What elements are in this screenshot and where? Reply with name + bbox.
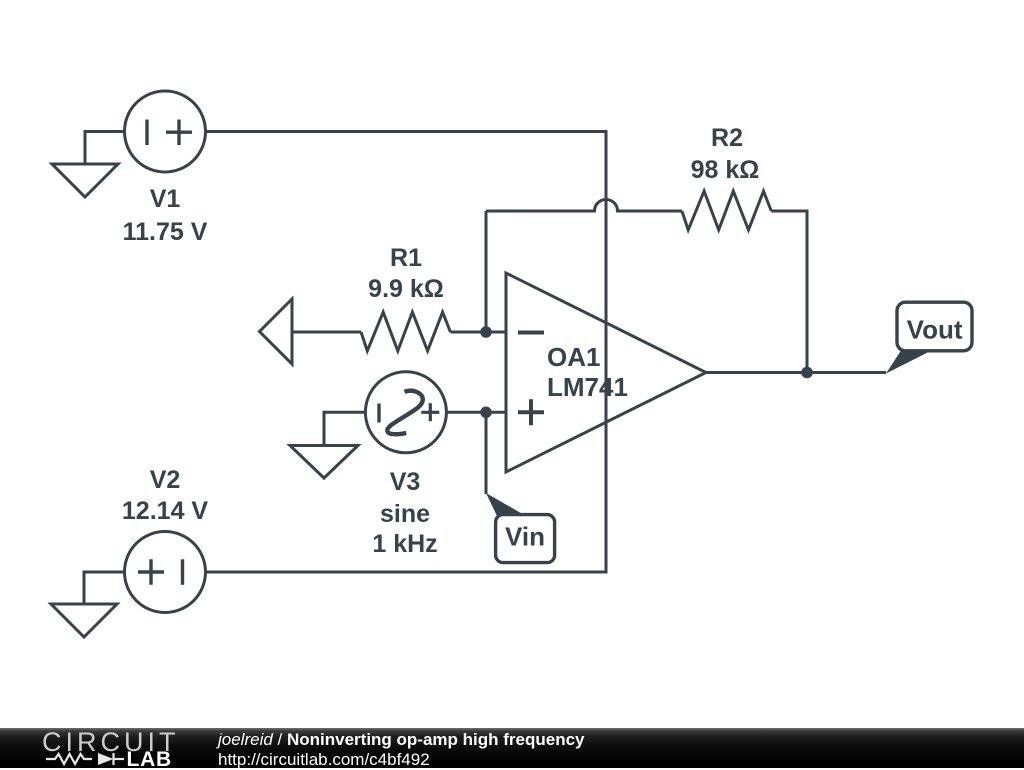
wire node to Vin flag <box>485 412 488 494</box>
wire V3 to ground <box>324 412 365 445</box>
ground for R1 <box>260 299 293 364</box>
svg-text:R2: R2 <box>711 124 743 152</box>
svg-text:LAB: LAB <box>126 748 172 768</box>
svg-text:12.14 V: 12.14 V <box>122 497 209 525</box>
wire supply rail V1 top to V2 bottom <box>206 132 607 573</box>
Vin flag pointer <box>486 493 526 516</box>
node Vin flag box <box>496 515 555 563</box>
ground for V3 <box>290 446 358 479</box>
V1 plus sign <box>166 120 192 146</box>
svg-text:V2: V2 <box>150 466 181 494</box>
wire V1 to ground <box>85 132 125 165</box>
footer title line <box>218 730 585 750</box>
svg-text:sine: sine <box>380 500 430 528</box>
wire R1 to inverting input <box>450 331 506 334</box>
CircuitLab logo <box>0 728 200 768</box>
wire R2 to output node <box>771 211 807 373</box>
voltage source V3 sine <box>365 372 446 453</box>
V2 minus bar <box>181 559 184 585</box>
resistor R1 <box>361 312 450 351</box>
svg-text:9.9 kΩ: 9.9 kΩ <box>368 275 444 303</box>
svg-text:11.75 V: 11.75 V <box>123 218 208 246</box>
V3 plus sign <box>421 403 439 421</box>
resistor R2 <box>682 191 771 230</box>
ground for V1 <box>52 164 118 197</box>
ground for V2 <box>51 604 117 637</box>
wire ground to R1 <box>292 331 361 334</box>
wire output <box>706 371 886 374</box>
svg-text:1 kHz: 1 kHz <box>372 530 437 558</box>
svg-text:OA1: OA1 <box>547 342 600 372</box>
svg-text:V3: V3 <box>390 468 421 496</box>
svg-text:V1: V1 <box>150 185 181 213</box>
node junction output <box>801 367 813 379</box>
op-amp plus input symbol <box>518 399 544 425</box>
svg-text:98 kΩ: 98 kΩ <box>691 156 760 184</box>
wire V3 to noninverting input <box>446 411 506 414</box>
V2 plus sign <box>138 559 164 585</box>
footer url line <box>218 750 430 770</box>
V3 minus bar <box>377 404 380 423</box>
svg-text:R1: R1 <box>390 244 422 272</box>
voltage source V1 <box>125 91 206 172</box>
V1 minus bar <box>145 120 148 146</box>
op-amp minus input symbol <box>518 331 544 335</box>
op-amp OA1 <box>506 273 706 472</box>
wire V2 to ground <box>84 572 125 604</box>
svg-text:LM741: LM741 <box>547 372 628 402</box>
node junction noninverting input <box>480 407 492 419</box>
voltage source V2 <box>125 532 206 613</box>
wire feedback horizontal with hop over rail <box>486 200 682 212</box>
V3 sine symbol <box>387 391 423 435</box>
svg-text:Vin: Vin <box>505 522 545 552</box>
svg-text:Vout: Vout <box>907 314 963 344</box>
footer bar <box>0 728 1024 768</box>
Vout flag pointer <box>886 351 932 374</box>
node Vout flag box <box>897 302 972 351</box>
wire feedback vertical left <box>485 211 488 332</box>
node junction inverting input <box>480 326 492 338</box>
